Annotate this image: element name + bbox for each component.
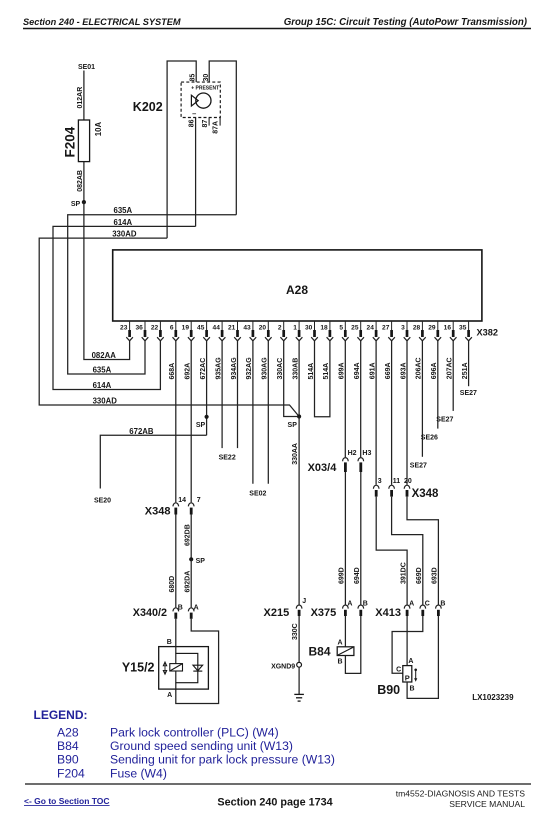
svg-text:+ PRESENT: + PRESENT (191, 85, 219, 91)
ground symbol (294, 693, 304, 695)
svg-text:935AG: 935AG (215, 357, 222, 380)
svg-text:330AC: 330AC (277, 358, 284, 380)
svg-text:A: A (167, 692, 172, 699)
A28 pin 45 / X382 (206, 321, 208, 330)
svg-text:635A: 635A (114, 206, 133, 215)
wire 012AR from SE01 to fuse F204 (83, 71, 85, 121)
svg-text:SE01: SE01 (78, 64, 95, 71)
svg-text:692DA: 692DA (185, 571, 192, 593)
relay K202 horn symbol (196, 93, 211, 108)
A28 pin 35 / X382 (468, 321, 470, 330)
svg-text:672AB: 672AB (129, 427, 154, 436)
wire 330AA splice SP to X215 J (298, 417, 300, 605)
svg-text:SE26: SE26 (421, 434, 438, 441)
svg-text:669A: 669A (385, 362, 392, 379)
svg-text:514A: 514A (323, 363, 330, 380)
X413 pin A (404, 605, 410, 609)
wire X340/2 A return loop to Y15/2 A (176, 619, 219, 704)
A28 pin 43 / X382 (252, 321, 254, 330)
wire 935AG A28 pin44 to SE22 (221, 341, 223, 448)
svg-text:LEGEND:: LEGEND: (34, 708, 88, 722)
A28 pin 29 / X382 (437, 321, 439, 330)
svg-text:668A: 668A (169, 363, 176, 380)
svg-text:X348: X348 (145, 506, 171, 518)
svg-text:A: A (409, 601, 414, 608)
svg-text:251A: 251A (462, 362, 469, 379)
svg-text:SERVICE MANUAL: SERVICE MANUAL (449, 799, 525, 809)
svg-text:J: J (302, 598, 306, 605)
svg-text:X340/2: X340/2 (133, 607, 167, 619)
X413 pin C (420, 605, 426, 609)
svg-text:SP: SP (196, 422, 206, 429)
svg-text:330AD: 330AD (112, 230, 137, 239)
svg-text:614A: 614A (93, 381, 112, 390)
svg-text:30: 30 (305, 324, 313, 331)
svg-text:3: 3 (378, 478, 382, 485)
svg-text:B: B (338, 659, 343, 666)
wire 635A bracket from K202 pin30 to A28 pin 36 (68, 215, 237, 374)
svg-text:A28: A28 (57, 725, 79, 739)
svg-text:27: 27 (382, 324, 390, 331)
wire 932AG A28 pin43 to SE02 (252, 341, 254, 484)
svg-text:330AB: 330AB (292, 358, 299, 380)
svg-text:<- Go to Section TOC: <- Go to Section TOC (24, 796, 110, 806)
svg-text:SE27: SE27 (460, 390, 477, 397)
svg-text:14: 14 (178, 497, 186, 504)
wire K202 pin 86 down to 614A (195, 118, 197, 227)
wire 207AC A28 pin16 to SE27 (452, 341, 454, 411)
svg-text:2: 2 (278, 324, 282, 331)
svg-text:1: 1 (293, 324, 297, 331)
wire X413 A to B90 A (406, 616, 408, 666)
svg-text:Sending unit for park lock pre: Sending unit for park lock pressure (W13… (110, 753, 335, 767)
svg-text:LX1023239: LX1023239 (472, 693, 514, 702)
A28 pin 18 / X382 (329, 321, 331, 330)
svg-text:012AR: 012AR (77, 87, 84, 109)
svg-text:A28: A28 (286, 283, 308, 297)
svg-text:Group 15C: Circuit Testing (Au: Group 15C: Circuit Testing (AutoPowr Tra… (284, 17, 527, 28)
X215 pin J (296, 605, 302, 609)
X375 pin B (358, 605, 364, 609)
svg-text:20: 20 (259, 324, 267, 331)
svg-text:11: 11 (393, 478, 401, 485)
wire 692A A28 pin19 to X348 pin7 (190, 341, 192, 503)
splice SP on 082 wire (82, 200, 86, 204)
svg-text:932AG: 932AG (246, 357, 253, 380)
svg-text:30: 30 (203, 74, 210, 82)
Y15/2 suppression diode (193, 665, 203, 671)
splice SP junction of 330 wires (297, 414, 301, 418)
svg-text:29: 29 (428, 324, 436, 331)
svg-text:36: 36 (135, 324, 143, 331)
svg-text:45: 45 (197, 324, 205, 331)
svg-text:A: A (194, 605, 199, 612)
A28 pin 20 / X382 (267, 321, 269, 330)
svg-text:A: A (347, 601, 352, 608)
wire 692DA splice to X340/2 A (190, 559, 192, 607)
svg-text:206AC: 206AC (416, 357, 423, 379)
svg-text:692A: 692A (185, 363, 192, 380)
X340/2 pin B (173, 608, 179, 612)
svg-text:20: 20 (404, 478, 412, 485)
A28 pin 22 / X382 (159, 321, 161, 330)
svg-text:Park lock controller (PLC) (W4: Park lock controller (PLC) (W4) (110, 725, 279, 739)
svg-text:696A: 696A (431, 362, 438, 379)
wire 680D X348 pin14 to X340/2 B (175, 515, 177, 608)
svg-text:Ground speed sending unit (W13: Ground speed sending unit (W13) (110, 739, 293, 753)
svg-text:XGND9: XGND9 (271, 663, 295, 670)
svg-text:B: B (167, 639, 172, 646)
svg-text:18: 18 (320, 324, 328, 331)
svg-text:B: B (440, 601, 445, 608)
wire 082AA from splice SP to A28 pin 23 (84, 202, 130, 359)
svg-text:A: A (338, 639, 343, 646)
svg-text:35: 35 (459, 324, 467, 331)
svg-text:694D: 694D (354, 567, 361, 584)
svg-text:680D: 680D (169, 576, 176, 593)
A28 pin 30 / X382 (314, 321, 316, 330)
K202 pin 87A stub (219, 118, 221, 126)
A28 pin 44 / X382 (221, 321, 223, 330)
svg-text:330AA: 330AA (292, 443, 299, 465)
svg-text:SE22: SE22 (219, 455, 236, 462)
svg-text:85: 85 (189, 74, 196, 82)
wire 206AC A28 pin28 to SE27 (421, 341, 423, 457)
wire 391DC X348 pin3 to X413 A (376, 497, 407, 605)
wire B84 B return to X375 B (345, 616, 360, 673)
wire 669D X348 pin11 to X413 C (392, 497, 423, 605)
K202 pin 87 stub (208, 118, 210, 126)
A28 pin 5 / X382 (344, 321, 346, 330)
svg-text:330C: 330C (292, 623, 299, 640)
svg-text:21: 21 (228, 324, 236, 331)
X03/4 pin H3 (358, 458, 364, 462)
svg-text:24: 24 (367, 324, 375, 331)
svg-text:B90: B90 (57, 753, 79, 767)
svg-text:SP: SP (196, 558, 206, 565)
wire 934AG A28 pin21 to SE22 (237, 341, 239, 448)
svg-text:44: 44 (213, 324, 221, 331)
svg-text:43: 43 (243, 324, 251, 331)
svg-text:330AD: 330AD (93, 396, 118, 405)
X375 pin A (343, 605, 349, 609)
svg-text:X03/4: X03/4 (308, 462, 338, 474)
svg-text:SP: SP (288, 422, 298, 429)
ground stud XGND9 (297, 662, 302, 667)
svg-text:B84: B84 (57, 739, 79, 753)
A28 pin 25 / X382 (360, 321, 362, 330)
wire 330AC A28 pin2 to splice SP (284, 341, 299, 417)
svg-text:H3: H3 (362, 450, 371, 457)
svg-text:669D: 669D (416, 567, 423, 584)
svg-text:693D: 693D (432, 567, 439, 584)
svg-text:A: A (408, 658, 413, 665)
svg-text:23: 23 (120, 324, 128, 331)
svg-text:X375: X375 (311, 607, 337, 619)
svg-text:B90: B90 (377, 683, 400, 697)
X03/4 pin H2 (343, 458, 349, 462)
svg-text:tm4552-DIAGNOSIS AND TESTS: tm4552-DIAGNOSIS AND TESTS (396, 788, 526, 798)
svg-text:SE20: SE20 (94, 497, 111, 504)
Y15/2 inner circuit box (176, 653, 198, 682)
svg-text:514A: 514A (308, 363, 315, 380)
svg-text:–: – (192, 109, 196, 118)
wire 699A A28 pin5 to X03/4 H2 (344, 341, 346, 457)
wire X375 A to B84 A (344, 616, 346, 647)
svg-text:934AG: 934AG (231, 357, 238, 380)
relay K202 dashed body (181, 82, 220, 117)
wire 696A A28 pin29 to SE26 (437, 341, 439, 429)
svg-text:C: C (396, 666, 401, 673)
controller A28 box (113, 250, 482, 321)
svg-text:C: C (425, 601, 430, 608)
svg-text:6: 6 (170, 324, 174, 331)
X348 pin 20 (404, 485, 410, 489)
svg-text:SP: SP (71, 201, 81, 208)
Y15/2 valve arrows (164, 662, 166, 675)
svg-text:699D: 699D (339, 567, 346, 584)
svg-text:082AA: 082AA (92, 351, 117, 360)
B90 pressure arrow (414, 669, 417, 672)
svg-text:22: 22 (151, 324, 159, 331)
svg-text:86: 86 (188, 119, 195, 127)
wire 330AD bracket from K202 pin85 to splice SP (39, 238, 299, 416)
svg-text:F204: F204 (62, 126, 77, 157)
A28 pin 28 / X382 (421, 321, 423, 330)
wire 330AB A28 pin1 to splice SP (298, 341, 300, 417)
svg-text:3: 3 (401, 324, 405, 331)
svg-text:X348: X348 (412, 488, 439, 500)
A28 pin 21 / X382 (237, 321, 239, 330)
svg-text:B: B (410, 686, 415, 693)
wire B90 B return to X413 B (407, 616, 438, 698)
A28 pin 24 / X382 (375, 321, 377, 330)
svg-text:614A: 614A (114, 218, 133, 227)
svg-text:87: 87 (202, 120, 209, 128)
svg-text:X413: X413 (375, 607, 401, 619)
A28 pin 1 / X382 (298, 321, 300, 330)
svg-text:28: 28 (413, 324, 421, 331)
svg-text:699A: 699A (339, 362, 346, 379)
wire 672AB from splice to SE20 (100, 435, 206, 488)
svg-text:SE27: SE27 (410, 462, 427, 469)
X340/2 pin A (188, 608, 194, 612)
A28 pin 2 / X382 (283, 321, 285, 330)
svg-text:H2: H2 (348, 450, 357, 457)
svg-text:693A: 693A (400, 362, 407, 379)
svg-text:Fuse (W4): Fuse (W4) (110, 766, 167, 780)
A28 pin 6 / X382 (175, 321, 177, 330)
svg-text:P: P (405, 673, 410, 682)
wire 514A loop A28 pin30 to pin18 (315, 341, 330, 417)
splice SP on 672AC (205, 415, 209, 419)
wire 699D X03/4 H2 to X375 A (344, 472, 346, 605)
svg-text:672AC: 672AC (200, 358, 207, 380)
X348 pin 11 (389, 485, 395, 489)
wire 694D X03/4 H3 to X375 B (360, 472, 362, 605)
A28 pin 23 / X382 (129, 321, 131, 330)
svg-text:F204: F204 (57, 766, 85, 780)
X413 pin B (436, 605, 442, 609)
header rule (23, 28, 531, 30)
X348 pin 3 (373, 485, 379, 489)
svg-text:SE02: SE02 (249, 490, 266, 497)
A28 pin 3 / X382 (406, 321, 408, 330)
svg-text:19: 19 (182, 324, 190, 331)
svg-text:25: 25 (351, 324, 359, 331)
svg-text:B84: B84 (309, 644, 331, 658)
svg-text:X382: X382 (477, 328, 498, 338)
svg-text:16: 16 (444, 324, 452, 331)
wire 930AG A28 pin20 to SE02 (267, 341, 269, 484)
svg-text:930AG: 930AG (262, 357, 269, 380)
footer rule (25, 783, 531, 785)
svg-text:692DB: 692DB (185, 524, 192, 546)
wire 668A A28 pin6 to X348 pin14 (175, 341, 177, 503)
wire 251A A28 pin35 to SE27 (468, 341, 470, 386)
svg-text:B: B (178, 605, 183, 612)
svg-text:10A: 10A (94, 122, 103, 137)
svg-text:87A: 87A (213, 121, 220, 134)
X348 pin 14 (173, 503, 179, 507)
svg-text:7: 7 (197, 497, 201, 504)
wire 672AC A28 pin45 to splice SP (206, 341, 208, 436)
svg-text:Section 240 page 1734: Section 240 page 1734 (217, 797, 332, 809)
wire 082AB from fuse to splice SP (83, 162, 85, 202)
svg-text:Section 240 - ELECTRICAL SYSTE: Section 240 - ELECTRICAL SYSTEM (23, 17, 181, 27)
svg-text:5: 5 (339, 324, 343, 331)
wire 694A A28 pin25 to X03/4 H3 (360, 341, 362, 457)
A28 pin 27 / X382 (391, 321, 393, 330)
svg-text:X215: X215 (264, 607, 290, 619)
svg-text:SE27: SE27 (436, 416, 453, 423)
svg-text:082AB: 082AB (77, 170, 84, 192)
A28 pin 16 / X382 (452, 321, 454, 330)
wire K202 pin 85 loop to 330AD drop (167, 61, 196, 238)
wire 692DB X348 pin7 to splice SP (190, 515, 192, 560)
A28 pin 36 / X382 (144, 321, 146, 330)
svg-text:K202: K202 (133, 100, 163, 114)
fuse F204 10A (78, 120, 89, 162)
wire 614A bracket from K202 pin86 to A28 pin 22 (53, 226, 196, 389)
wire 693A A28 pin3 to X348 pin20 (406, 341, 408, 485)
wire XGND9 to chassis ground (298, 667, 300, 694)
svg-text:391DC: 391DC (400, 562, 407, 584)
X348 pin 7 (188, 503, 194, 507)
Y15/2 coil (170, 664, 183, 671)
A28 pin 19 / X382 (190, 321, 192, 330)
svg-text:207AC: 207AC (447, 357, 454, 379)
svg-text:691A: 691A (369, 362, 376, 379)
wire X340/2 B to Y15/2 B (175, 619, 177, 647)
svg-text:635A: 635A (93, 365, 112, 374)
svg-text:B: B (363, 601, 368, 608)
wire 693D X348 pin20 to X413 B (407, 497, 438, 605)
svg-text:694A: 694A (354, 362, 361, 379)
wire 691A A28 pin24 to X348 pin3 (375, 341, 377, 485)
wire 330C X215 J to XGND9 (298, 616, 300, 662)
wire K202 pin 30 loop to 635A drop (209, 61, 236, 215)
splice SP on 692D (189, 557, 193, 561)
wire 669A A28 pin27 to X348 pin11 (391, 341, 393, 485)
svg-text:Y15/2: Y15/2 (122, 661, 155, 675)
wire X413 C loop to B90 C (392, 616, 423, 673)
